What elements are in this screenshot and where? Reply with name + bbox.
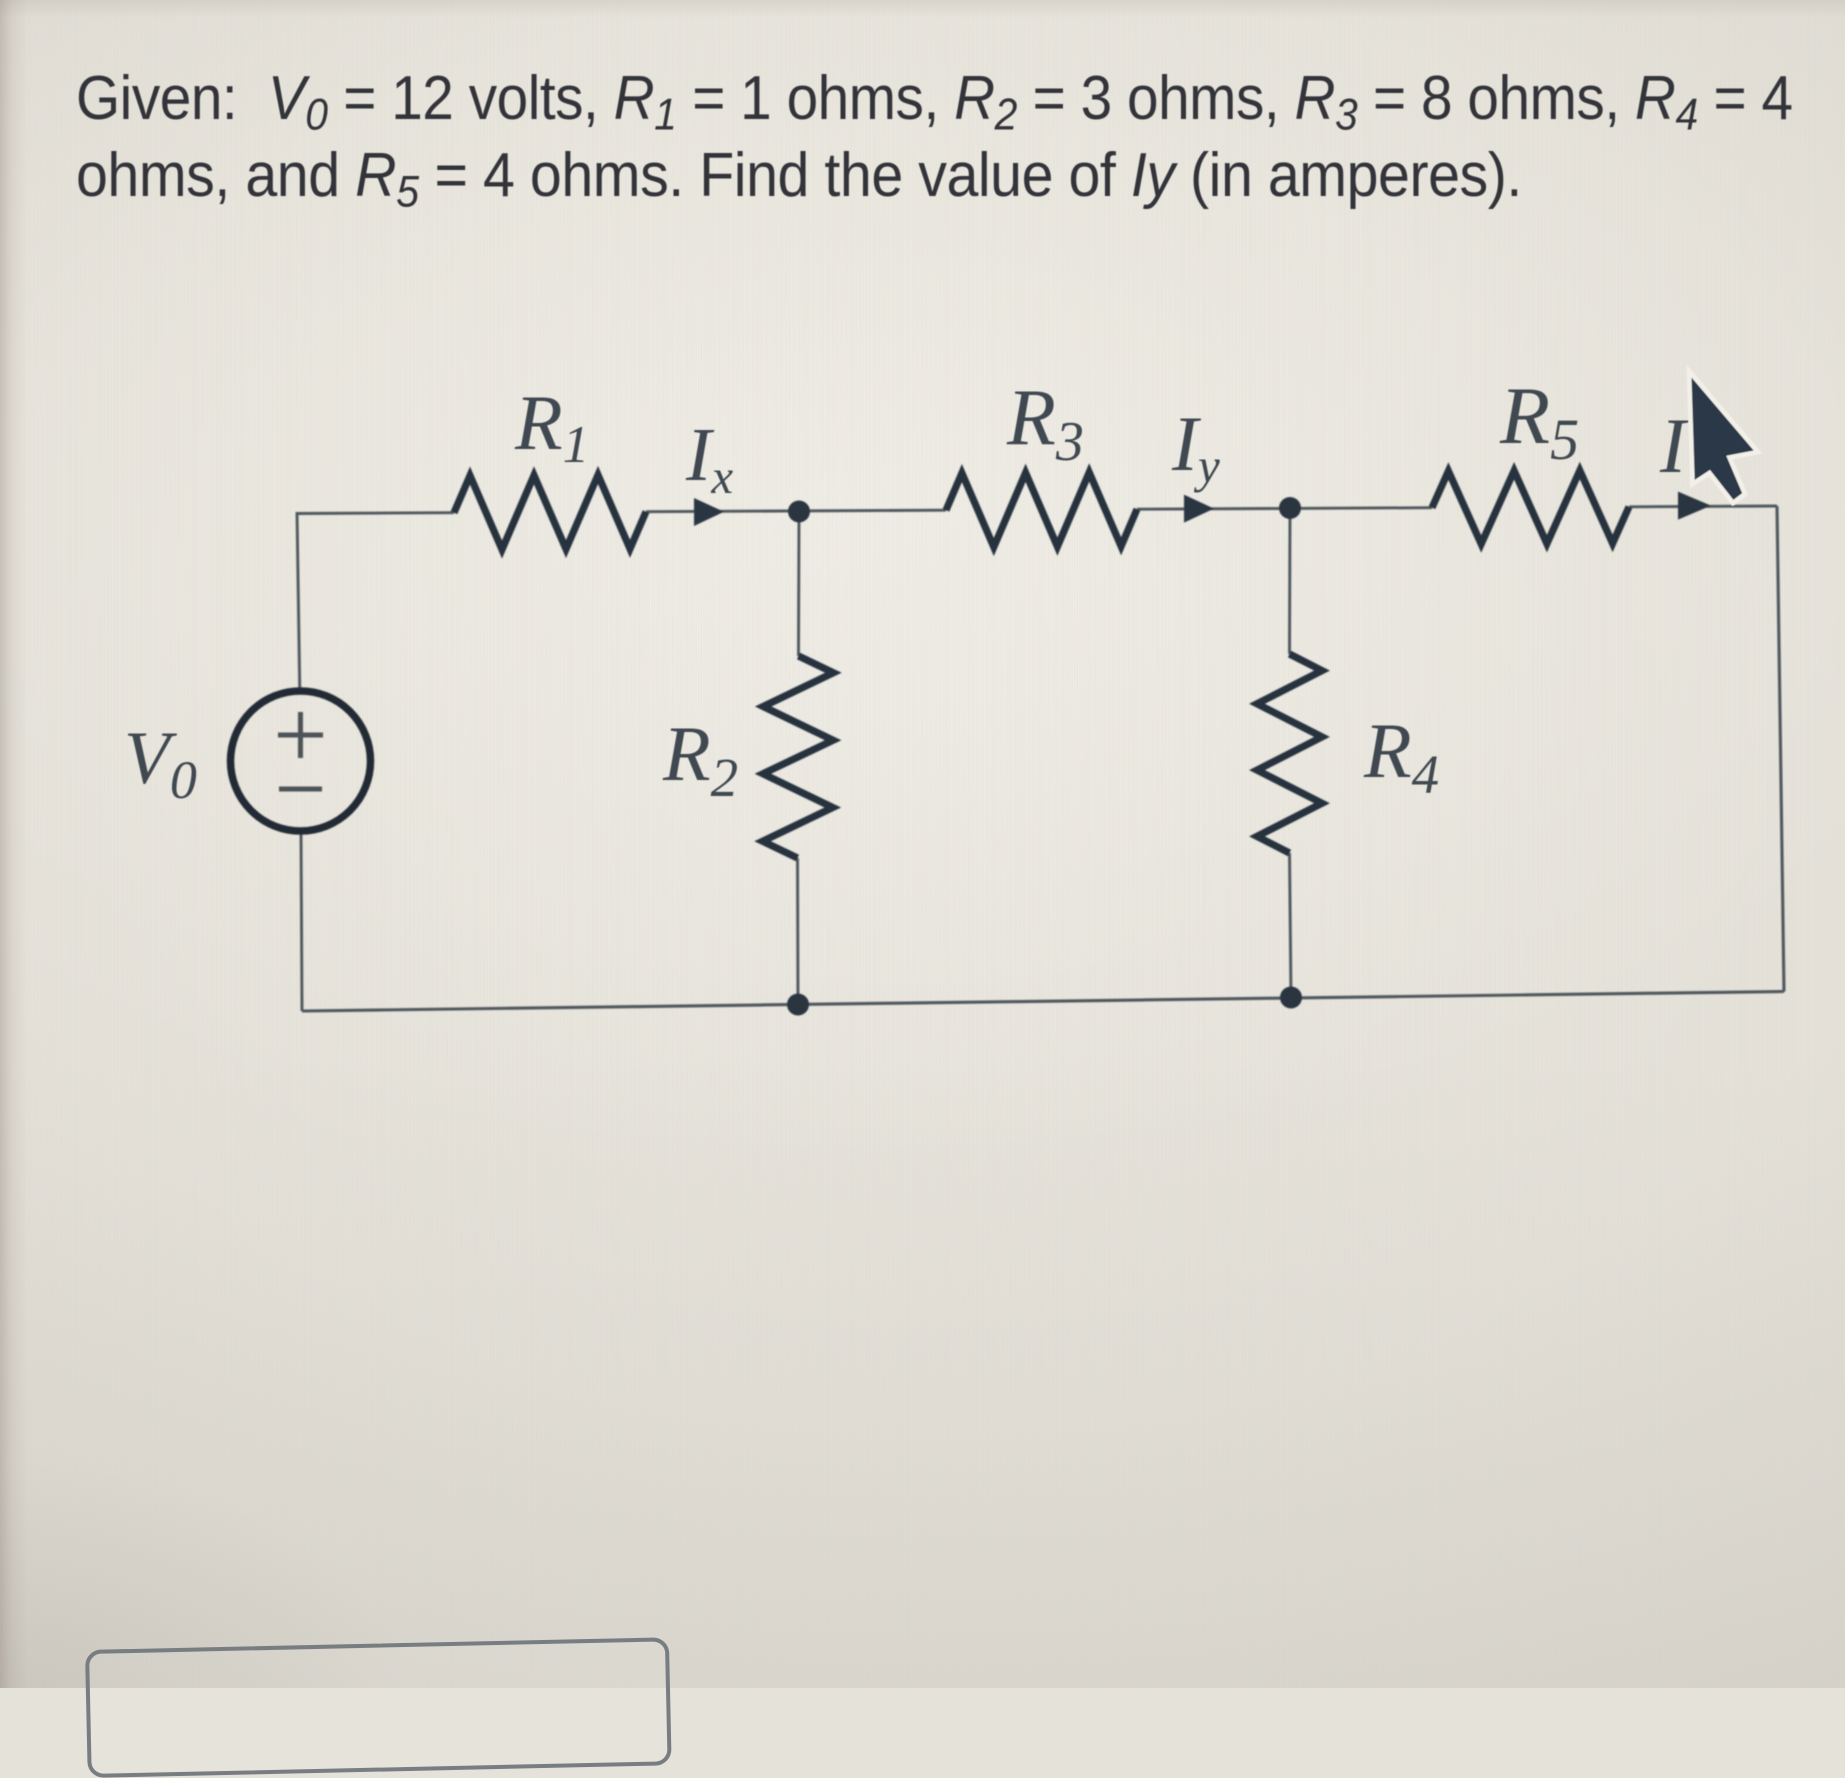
- svg-text:R4: R4: [1363, 707, 1439, 805]
- voltage source V0 circle: [231, 691, 371, 831]
- answer input box: [85, 1637, 672, 1778]
- wire left lower: [301, 831, 302, 1011]
- mouse cursor: [1689, 371, 1758, 503]
- wire R1 to R3: [646, 510, 946, 512]
- wire top-left segment: [297, 511, 454, 515]
- svg-text:R2: R2: [662, 710, 738, 808]
- wire R2 top stub: [797, 512, 800, 656]
- wire R4 bottom stub: [1290, 853, 1292, 998]
- wire R5 to top-right corner: [1629, 505, 1777, 509]
- resistor R5 zigzag: [1432, 471, 1629, 545]
- current arrow Iy: [1184, 495, 1214, 523]
- header problem text: [76, 60, 1845, 214]
- wire R3 to R5: [1137, 508, 1432, 510]
- resistor R1 zigzag: [454, 475, 646, 550]
- node dot top R2: [788, 501, 810, 523]
- current arrow Ix: [694, 498, 724, 526]
- wire R2 bottom stub: [796, 858, 799, 1005]
- wire right: [1777, 506, 1784, 992]
- node dot bottom R4: [1280, 987, 1302, 1009]
- resistor R3 zigzag: [946, 472, 1137, 547]
- svg-text:R1: R1: [514, 379, 589, 474]
- svg-text:Iy: Iy: [1171, 400, 1220, 493]
- node dot top R4: [1279, 497, 1301, 519]
- plus sign: [278, 712, 323, 758]
- svg-text:V0: V0: [124, 717, 197, 810]
- resistor R2 zigzag: [763, 656, 834, 858]
- wire left upper: [297, 512, 300, 692]
- node dot bottom R2: [787, 994, 809, 1016]
- svg-text:I: I: [1659, 402, 1690, 489]
- svg-text:R3: R3: [1006, 374, 1084, 473]
- minus sign: [279, 787, 322, 792]
- svg-text:R5: R5: [1499, 370, 1579, 472]
- resistor R4 zigzag: [1257, 654, 1322, 853]
- svg-text:Ix: Ix: [685, 413, 733, 504]
- current arrow I: [1678, 492, 1711, 520]
- wire bottom: [302, 992, 1784, 1012]
- wire R4 top stub: [1288, 509, 1291, 655]
